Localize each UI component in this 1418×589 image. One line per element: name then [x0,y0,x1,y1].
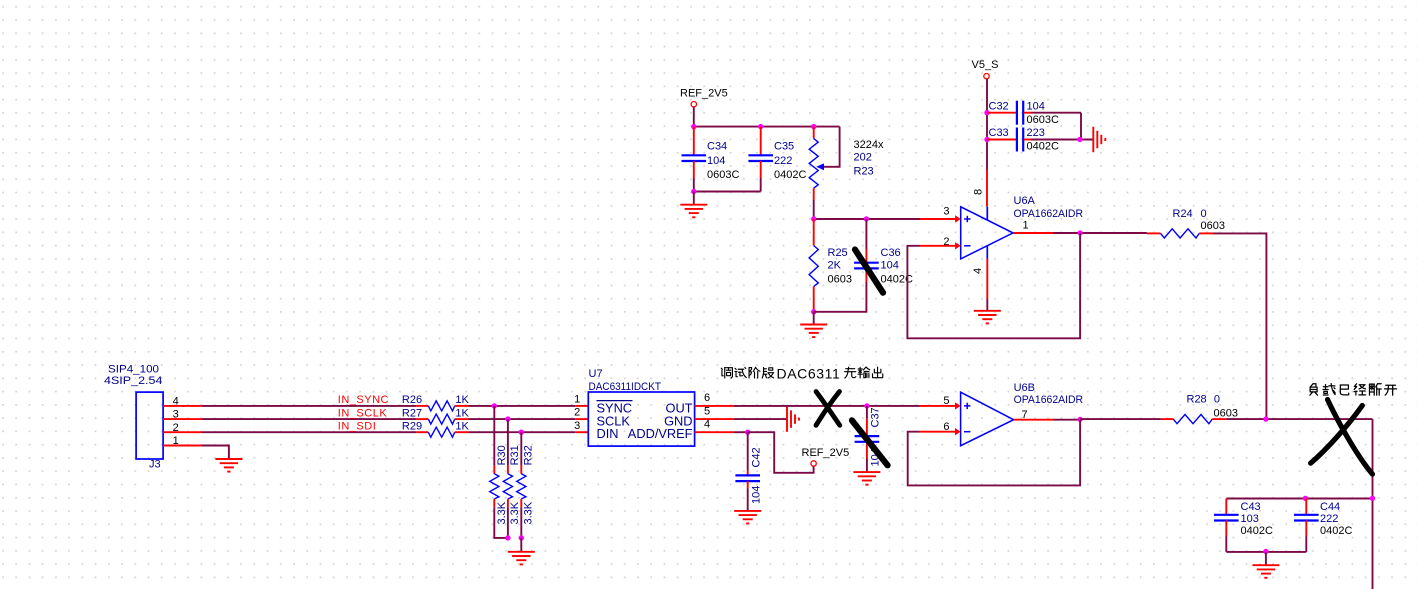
value labels C36 104 0402C [881,247,913,286]
svg-text:R25: R25 [828,247,848,259]
svg-text:C37: C37 [870,407,882,427]
labels R26 1K [402,394,470,406]
wire U6B output to R28 [1080,418,1161,420]
input arrow U6B + [955,402,961,409]
svg-text:J3: J3 [149,459,161,471]
svg-text:3: 3 [574,420,580,432]
wire to ground under R25 [813,312,815,325]
svg-text:1: 1 [1023,219,1029,231]
labels R27 1K [402,407,470,419]
designator C42 104 (rotated) [750,447,762,504]
svg-text:REF_2V5: REF_2V5 [802,447,850,459]
wire load branch down right side [1372,419,1374,589]
svg-text:DIN: DIN [597,426,619,441]
op-amp U6A [961,207,1013,259]
U7 ADD/VREF pin stub [695,431,734,433]
wire SYNC row to U7 [469,405,589,407]
svg-text:1: 1 [173,435,179,447]
svg-text:0603: 0603 [1201,220,1225,232]
wire pot wiper connection [824,127,840,167]
J3 pin numbers [173,395,179,447]
svg-text:R26: R26 [402,394,422,406]
potentiometer R23 [809,127,824,219]
resistor R24 [1147,229,1213,238]
ground right-facing for C32/C33 [1093,127,1105,153]
pin 8 segment into op-amp [986,207,988,220]
svg-text:R31: R31 [509,445,521,465]
svg-text:0402C: 0402C [774,169,806,181]
capacitor C32 [987,101,1081,125]
wire U6A output [1013,232,1147,234]
net labels IN_SYNC IN_SCLK IN_SDI [338,394,389,432]
capacitor C43 [1214,499,1239,552]
J3 pin 1 stub [163,445,201,447]
svg-text:C32: C32 [989,100,1009,112]
svg-text:3.3K: 3.3K [523,501,535,524]
capacitor C34 [682,127,707,192]
net label REF_2V5 (bottom) [802,447,850,466]
svg-text:104: 104 [1027,100,1045,112]
capacitor C37 [855,406,880,472]
pin 4 segment and wire to ground [986,246,988,311]
svg-text:U6B: U6B [1014,382,1035,394]
svg-text:IN_SCLK: IN_SCLK [338,407,388,419]
J3 pin 3 stub [163,418,201,420]
value labels C44 222 0402C [1320,501,1352,537]
ground under U6A pin 4 [974,311,1001,324]
wire mid bus to U6A + input [814,218,956,220]
svg-text:REF_2V5: REF_2V5 [680,88,728,100]
svg-text:5: 5 [704,405,710,417]
wire V5_S down to op-amp pin 8 [986,79,988,207]
designator C37 104 (rotated) [870,407,882,466]
svg-text:6: 6 [704,392,710,404]
U7 GND pin stub [695,418,734,420]
wire IN_SCLK row [201,418,416,420]
svg-text:223: 223 [1027,127,1045,139]
ground under C34 [680,205,707,218]
svg-text:0402C: 0402C [1241,525,1273,537]
resistor R29 [416,427,468,437]
node junction C32/C33 ground net [1077,137,1082,142]
cross-out slash over C36 [855,250,883,293]
wire to ground under C34 [693,192,695,205]
node junction mid bus at C36 [864,216,869,221]
svg-text:3224x: 3224x [854,139,884,151]
svg-text:1K: 1K [455,394,469,406]
value labels R25 2K 0603 [828,247,852,286]
wire J3 pin1 to ground [201,446,229,460]
svg-text:C33: C33 [989,127,1009,139]
node junction R25 bottom [811,309,816,314]
node junction U6B output [1077,417,1082,422]
wire U6B output [1014,419,1081,421]
wire to ground under pull-downs [520,538,522,552]
resistor R31 [503,419,512,538]
node junction top bus at C35 [758,124,763,129]
pin labels SYNC SCLK DIN [597,401,633,442]
svg-text:1K: 1K [455,421,469,433]
annotation text 负载已经断开 [1310,384,1397,396]
svg-text:0402C: 0402C [1320,525,1352,537]
wire SCLK row to U7 [469,418,589,420]
node junction ground tap C43/C44 [1263,549,1268,554]
wire U7 GND to ground [734,418,787,420]
wire R25 bottom to C36 bottom [814,282,867,312]
labels R29 1K [402,421,470,433]
U7 OUT pin stub [695,405,734,407]
wire C32 right down to C33 net [1080,113,1082,140]
J3 pin 2 stub [163,431,201,433]
ground under J3 pin 1 [215,459,242,472]
svg-text:R24: R24 [1173,208,1193,220]
capacitor C44 [1294,499,1319,552]
cross-out slash over C37 [852,420,888,465]
value labels C43 103 0402C [1241,501,1273,537]
svg-text:1: 1 [574,394,580,406]
wire SDI row to U7 [469,431,589,433]
svg-text:DAC6311: DAC6311 [777,365,841,381]
resistor R27 [416,414,468,424]
ground under R30/R31/R32 [508,552,535,565]
svg-text:103: 103 [1241,513,1259,525]
designator U7 DAC6311IDCKT [589,368,662,393]
wire IN_SYNC row [201,405,416,407]
U7 right pin numbers 6 5 4 [704,392,710,430]
wire U6A feedback loop [907,233,1080,338]
resistor R32 [517,432,526,538]
value labels 3224x 202 R23 [854,139,884,178]
resistor R25 [809,219,818,312]
value labels C33 223 0402C [989,127,1059,153]
node junction U6A output [1077,230,1082,235]
pin labels OUT GND ADD/VREF [628,401,693,442]
node junction pull-down R31 tap [505,416,510,421]
svg-text:3.3K: 3.3K [496,501,508,524]
wire OUT row to U6B + input [734,405,956,407]
wire U7 ADD/VREF to C42 and REF_2V5 [734,431,748,433]
svg-text:IN_SYNC: IN_SYNC [338,394,389,406]
svg-text:222: 222 [774,155,792,167]
svg-text:4: 4 [173,395,179,407]
node junction C37 tap [864,403,869,408]
svg-text:2: 2 [173,422,179,434]
svg-text:U7: U7 [589,368,603,380]
connector J3 body [136,392,163,459]
value labels C34 104 0603C [707,141,739,182]
designators R30 R31 R32 (rotated) [496,445,535,465]
SYNC overline [597,400,633,402]
svg-text:5: 5 [943,395,949,407]
capacitor C33 [987,128,1093,152]
wire C43/C44 bottom bus [1226,551,1306,553]
svg-text:ADD/VREF: ADD/VREF [628,426,693,441]
annotation text 调试阶段DAC6311无输出 [721,365,882,381]
cross-out X over load wire [1311,400,1373,475]
wire C34/C35 bottoms [694,191,761,193]
op-amp U6B [961,392,1014,446]
net label REF_2V5 (top) [680,88,728,107]
wire IN_SDI row [201,431,416,433]
svg-text:0603C: 0603C [1027,114,1059,126]
value labels R28 0 0603 [1187,394,1238,420]
input arrow U6B - [955,428,961,435]
node junction right vertical tap [1370,496,1375,501]
node junction C44 top [1303,496,1308,501]
svg-text:R32: R32 [523,445,535,465]
wire R24 output to right and down [1213,233,1266,419]
svg-text:R30: R30 [496,445,508,465]
IC U7 body [588,392,694,446]
ground under R25 [800,325,827,338]
svg-text:R27: R27 [402,407,422,419]
svg-text:0603C: 0603C [707,169,739,181]
svg-text:3: 3 [173,409,179,421]
svg-text:104: 104 [750,486,762,504]
node junction mid bus at R25 [811,216,816,221]
svg-text:3: 3 [943,206,949,218]
ground under C37 [853,472,880,485]
svg-text:8: 8 [973,189,985,195]
svg-text:3.3K: 3.3K [509,501,521,524]
svg-text:4: 4 [704,419,710,431]
svg-text:C42: C42 [750,447,762,467]
ground under C43/C44 [1252,565,1279,578]
designator U6A OPA1662AIDR [1014,195,1084,220]
connector J3 labels SIP4_100 4SIP_2.54 [104,364,162,387]
capacitor C36 [854,219,879,282]
node junction top bus at R23 [811,124,816,129]
capacitor C42 [735,432,760,511]
ground under C42 [734,511,761,524]
J3 pin 4 stub [163,405,201,407]
svg-text:104: 104 [881,260,899,272]
wire R28 output to load [1226,418,1372,420]
svg-text:0: 0 [1214,394,1220,406]
U7 left pin numbers 1 2 3 [574,394,580,432]
wire C43/C44 top bus [1226,498,1372,500]
svg-text:IN_SDI: IN_SDI [338,421,376,433]
wire U6B feedback loop [908,420,1080,486]
node junction pull-down R30 tap [492,403,497,408]
node junction ADD/VREF [745,430,750,435]
svg-text:SIP4_100: SIP4_100 [108,364,159,376]
node junction top bus at C34 [691,124,696,129]
power port V5_S [972,59,999,79]
resistor R30 [490,406,508,538]
svg-text:V5_S: V5_S [972,59,999,71]
capacitor C35 [748,127,773,192]
svg-text:104: 104 [707,155,725,167]
node junction at C33 [984,137,989,142]
svg-text:0: 0 [1201,208,1207,220]
input arrow U6A + [955,215,961,222]
wire top bus [694,126,840,128]
values 3.3K 3.3K 3.3K (rotated) [496,501,535,524]
resistor R28 [1161,415,1226,424]
svg-text:2: 2 [574,407,580,419]
designator U6B OPA1662AIDR [1014,382,1084,406]
node junction at C32 [984,110,989,115]
wire ADD/VREF to REF_2V5 port [748,432,814,473]
svg-text:R29: R29 [402,421,422,433]
node junction R32 bottom [519,535,524,540]
wire REF_2V5 port to bus [693,107,695,127]
svg-text:2K: 2K [828,260,842,272]
svg-text:C36: C36 [881,247,901,259]
node junction C34 bottom [691,189,696,194]
svg-text:C43: C43 [1241,501,1261,513]
node junction R31 bottom [505,535,510,540]
svg-text:202: 202 [854,151,872,163]
resistor R26 [416,401,468,411]
node junction R24/R28 outputs [1263,416,1268,421]
svg-text:U6A: U6A [1014,195,1036,207]
cross-out X over DAC output [816,392,840,426]
svg-text:222: 222 [1320,513,1338,525]
svg-text:4SIP_2.54: 4SIP_2.54 [104,375,162,387]
svg-text:0603: 0603 [828,274,852,286]
svg-text:C44: C44 [1320,501,1340,513]
svg-text:OPA1662AIDR: OPA1662AIDR [1014,394,1084,406]
svg-text:C34: C34 [707,141,727,153]
svg-text:R28: R28 [1187,394,1207,406]
svg-text:4: 4 [972,268,984,274]
value labels R24 0 0603 [1173,208,1225,232]
svg-text:0402C: 0402C [1027,141,1059,153]
svg-text:1K: 1K [455,407,469,419]
node junction pull-down R32 tap [519,430,524,435]
svg-text:R23: R23 [854,166,874,178]
wire to ground under C43/C44 [1265,552,1267,565]
value labels C32 104 0603C [989,100,1059,126]
value labels C35 222 0402C [774,141,806,182]
ground right-facing for U7 GND [787,406,799,432]
svg-text:0603: 0603 [1214,408,1238,420]
input arrow U6A - [955,242,961,249]
svg-text:C35: C35 [774,141,794,153]
